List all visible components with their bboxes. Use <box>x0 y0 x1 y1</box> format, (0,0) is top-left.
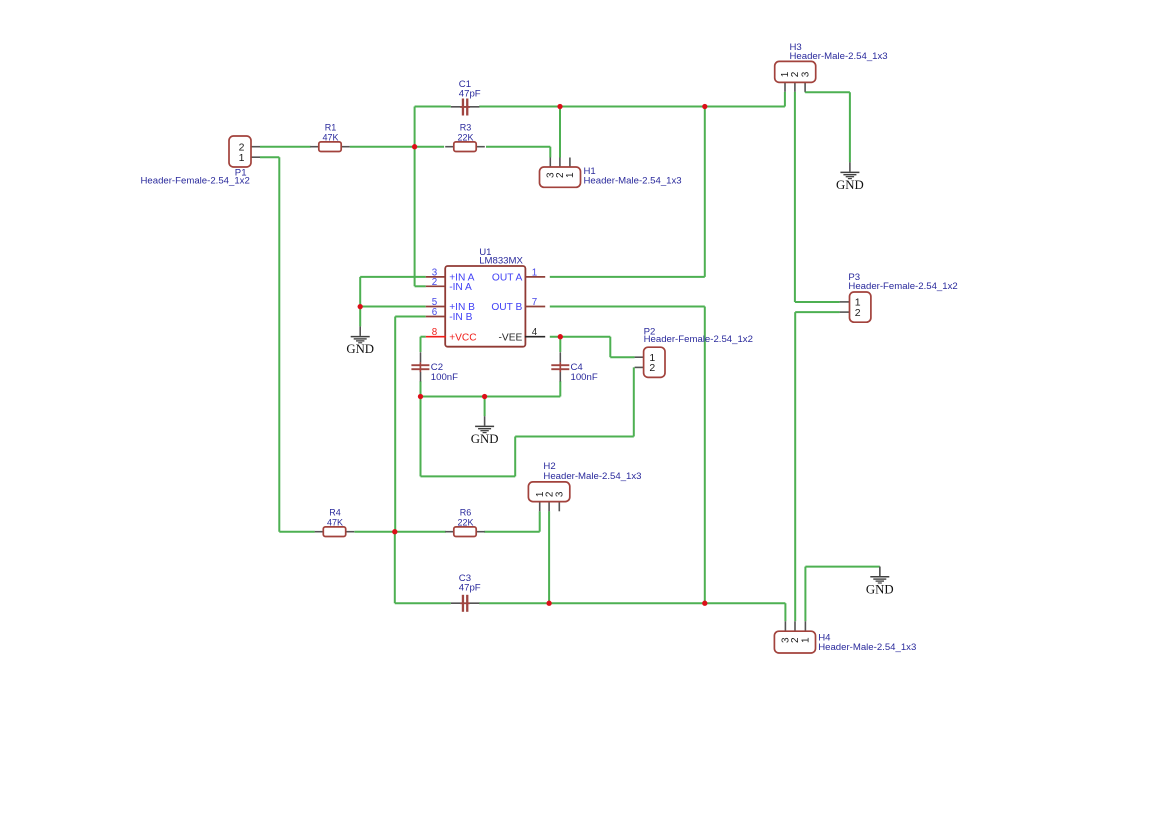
svg-text:22K: 22K <box>457 133 473 143</box>
svg-text:1: 1 <box>532 267 537 278</box>
svg-text:R6: R6 <box>460 507 472 517</box>
svg-text:22K: 22K <box>457 518 473 528</box>
svg-text:Header-Male-2.54_1x3: Header-Male-2.54_1x3 <box>543 471 641 482</box>
svg-text:2: 2 <box>855 307 861 319</box>
svg-text:OUT B: OUT B <box>491 302 522 313</box>
svg-text:OUT A: OUT A <box>492 272 523 283</box>
svg-text:Header-Male-2.54_1x3: Header-Male-2.54_1x3 <box>584 176 682 187</box>
svg-text:6: 6 <box>432 307 438 318</box>
svg-text:100nF: 100nF <box>571 372 598 383</box>
svg-text:Header-Male-2.54_1x3: Header-Male-2.54_1x3 <box>818 642 916 653</box>
svg-text:Header-Female-2.54_1x2: Header-Female-2.54_1x2 <box>848 281 957 292</box>
svg-text:-IN B: -IN B <box>449 312 472 323</box>
svg-text:GND: GND <box>346 342 374 356</box>
svg-text:47pF: 47pF <box>459 88 481 99</box>
svg-text:7: 7 <box>532 297 537 308</box>
svg-text:47K: 47K <box>327 518 343 528</box>
svg-text:2: 2 <box>790 637 801 643</box>
svg-text:2: 2 <box>432 277 437 288</box>
svg-text:GND: GND <box>866 582 894 596</box>
svg-text:100nF: 100nF <box>431 372 458 383</box>
svg-text:GND: GND <box>471 432 499 446</box>
svg-text:3: 3 <box>800 71 811 77</box>
svg-text:47K: 47K <box>322 133 338 143</box>
svg-text:LM833MX: LM833MX <box>479 255 523 266</box>
svg-text:47pF: 47pF <box>459 582 481 593</box>
svg-text:4: 4 <box>532 327 538 338</box>
svg-text:R3: R3 <box>460 122 472 132</box>
svg-text:3: 3 <box>555 491 566 497</box>
svg-text:GND: GND <box>836 178 864 192</box>
svg-text:1: 1 <box>239 152 245 164</box>
svg-text:Header-Female-2.54_1x2: Header-Female-2.54_1x2 <box>644 334 753 345</box>
svg-text:-VEE: -VEE <box>499 332 523 343</box>
svg-text:1: 1 <box>801 637 812 643</box>
svg-text:R4: R4 <box>329 507 341 517</box>
svg-text:R1: R1 <box>325 122 337 132</box>
svg-text:-IN A: -IN A <box>449 282 472 293</box>
svg-text:+VCC: +VCC <box>449 332 476 343</box>
svg-text:2: 2 <box>649 362 655 374</box>
svg-text:Header-Female-2.54_1x2: Header-Female-2.54_1x2 <box>140 175 249 186</box>
svg-text:1: 1 <box>565 172 576 178</box>
svg-text:8: 8 <box>432 327 438 338</box>
svg-text:Header-Male-2.54_1x3: Header-Male-2.54_1x3 <box>790 51 888 62</box>
